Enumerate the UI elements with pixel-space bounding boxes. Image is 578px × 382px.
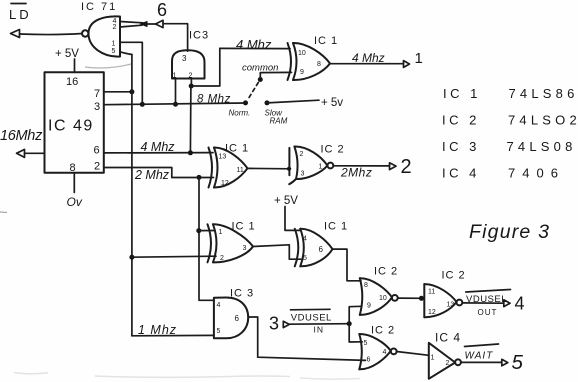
svg-text:5: 5 (512, 351, 524, 374)
svg-text:4 Mhz: 4 Mhz (236, 37, 272, 52)
wire IC2b output to IC2c (398, 297, 425, 299)
svg-text:VDUSEL: VDUSEL (291, 313, 332, 324)
connector arrow out 5 (502, 359, 508, 366)
net label VDUSEL OUT (overline) (466, 290, 511, 318)
wire +5V to pin16 (74, 59, 76, 72)
wire IC3a pin2 down (190, 79, 192, 87)
svg-text:IC 2: IC 2 (442, 113, 480, 128)
svg-text:8: 8 (364, 282, 368, 289)
wire IC2a output (333, 165, 389, 167)
xor-gate IC1d (295, 229, 333, 267)
svg-text:4: 4 (515, 294, 525, 314)
svg-text:1: 1 (112, 41, 116, 48)
svg-text:6: 6 (367, 357, 371, 364)
svg-text:IN: IN (314, 325, 325, 335)
junction (188, 150, 193, 155)
svg-text:IC 2: IC 2 (442, 270, 466, 282)
nor-gate IC2a (289, 146, 333, 184)
svg-text:LD: LD (9, 7, 32, 22)
connector arrow 16MHz (17, 149, 25, 157)
svg-text:74LS08: 74LS08 (507, 139, 577, 154)
svg-text:1: 1 (415, 50, 423, 67)
switch wiper (dashed) (248, 83, 259, 101)
wire (147, 23, 156, 25)
svg-text:4 Mhz: 4 Mhz (352, 51, 385, 65)
svg-text:WAIT: WAIT (465, 351, 494, 362)
svg-text:4: 4 (217, 302, 221, 309)
svg-text:1: 1 (431, 355, 435, 362)
junction (173, 102, 178, 107)
wire Slow contact to +5v (267, 100, 319, 103)
svg-text:3: 3 (243, 245, 247, 252)
svg-text:8 Mhz: 8 Mhz (197, 94, 231, 106)
svg-text:2Mhz: 2Mhz (340, 166, 372, 180)
svg-text:74LSO2: 74LSO2 (508, 113, 578, 128)
net label WAIT (overline) (465, 344, 499, 362)
and-gate IC3a (output up) (172, 50, 205, 78)
connector arrow LD (11, 30, 20, 38)
junction (287, 167, 291, 171)
wire IC1c output to IC1d pin5 (253, 245, 301, 259)
svg-text:OUT: OUT (478, 308, 498, 317)
wire IC2d output to IC4 (397, 352, 429, 356)
svg-text:4: 4 (303, 236, 307, 243)
svg-text:6: 6 (235, 314, 240, 323)
wire VDUSEL IN down to IC2d pin5 (349, 324, 362, 342)
nor-gate IC2c (424, 284, 462, 317)
svg-text:2: 2 (300, 151, 304, 158)
wire 16MHz (25, 152, 45, 154)
svg-text:Norm.: Norm. (229, 109, 251, 118)
svg-text:5: 5 (217, 328, 221, 335)
wire LD output (20, 33, 83, 36)
svg-text:IC 3: IC 3 (442, 139, 480, 154)
junction (347, 321, 352, 326)
inverter IC4 (429, 343, 461, 379)
wire pin8 to 0v (73, 173, 75, 193)
junction (129, 255, 134, 260)
svg-text:9: 9 (367, 303, 371, 310)
net label VDUSEL IN (overline) (291, 309, 332, 334)
nand-gate IC71 (82, 16, 120, 56)
wire IC4 output (461, 361, 502, 363)
svg-text:12: 12 (221, 180, 229, 187)
wire pin2 2MHz (104, 168, 214, 178)
wire into IC1c pin1 (199, 230, 215, 232)
svg-text:5: 5 (303, 255, 307, 262)
svg-text:16: 16 (66, 76, 78, 88)
svg-text:2: 2 (220, 255, 224, 262)
connector arrow out 1 (404, 61, 410, 68)
svg-text:+ 5V: + 5V (55, 48, 79, 60)
svg-text:10: 10 (379, 295, 387, 302)
svg-text:IC 2: IC 2 (371, 325, 395, 337)
svg-text:VDUSEL: VDUSEL (466, 294, 507, 305)
junction (197, 175, 202, 180)
and-gate IC3b (214, 298, 248, 339)
svg-text:3: 3 (269, 314, 279, 334)
svg-text:1 Mhz: 1 Mhz (138, 323, 177, 337)
svg-text:+ 5V: + 5V (274, 195, 298, 207)
svg-text:IC 1: IC 1 (443, 86, 481, 101)
svg-text:IC 1: IC 1 (314, 35, 338, 47)
wire pin3 8MHz to Norm contact (104, 103, 246, 105)
svg-text:4 Mhz: 4 Mhz (141, 140, 176, 154)
wire pin7 (1MHz net) (104, 91, 132, 93)
svg-text:2: 2 (113, 24, 117, 31)
svg-text:8: 8 (317, 61, 321, 68)
svg-text:2: 2 (401, 156, 412, 178)
stray mark left edge (0, 211, 7, 214)
wire NAND input pair to node 6 (120, 22, 143, 28)
svg-text:74LS86: 74LS86 (509, 86, 578, 101)
connector arrow in 3 (283, 321, 289, 327)
wire 1MHz vertical (131, 55, 133, 336)
svg-text:12: 12 (428, 309, 436, 316)
junction (189, 84, 194, 89)
svg-text:IC 71: IC 71 (81, 1, 117, 13)
wire IC1a output (330, 63, 404, 65)
svg-text:IC 1: IC 1 (324, 221, 348, 233)
svg-text:IC 1: IC 1 (232, 221, 256, 233)
svg-text:IC 1: IC 1 (225, 143, 249, 155)
svg-text:6: 6 (94, 145, 100, 157)
xor-gate IC1c (208, 224, 254, 262)
svg-text:16Mhz: 16Mhz (0, 128, 43, 144)
stray smudge bottom (14, 373, 290, 378)
svg-text:IC3: IC3 (189, 30, 209, 42)
svg-text:Ov: Ov (67, 195, 83, 209)
svg-text:IC 2: IC 2 (321, 144, 345, 156)
xor-gate IC1b (209, 147, 248, 187)
svg-text:7: 7 (94, 88, 100, 100)
svg-text:1: 1 (319, 164, 323, 171)
svg-text:1: 1 (219, 229, 223, 236)
wire IC1b output to IC2a (248, 167, 291, 169)
wire NAND pin1 lead (120, 42, 143, 104)
svg-text:13: 13 (447, 302, 455, 309)
wire VDUSEL IN (289, 323, 349, 326)
svg-text:6: 6 (319, 245, 324, 254)
wire 2MHz branch down to XOR3 and IC3b (199, 177, 214, 300)
wire NAND pin5 lead (120, 52, 132, 55)
wire node 6 to IC3a output (163, 24, 188, 52)
wire pin2 node to 4MHz wire (191, 48, 220, 86)
svg-text:4: 4 (383, 349, 387, 356)
wire IC1d output to IC2b pin8 (333, 249, 362, 281)
wire 4MHz to XOR IC1a (220, 47, 290, 49)
svg-text:IC 49: IC 49 (48, 118, 94, 135)
wire 4MHz riser from pin6 net (189, 86, 192, 153)
svg-text:3: 3 (301, 171, 305, 178)
arrowhead solid on node 6 wire (140, 21, 148, 27)
svg-text:Figure 3: Figure 3 (469, 221, 550, 243)
junction (419, 296, 424, 301)
svg-text:IC 3: IC 3 (230, 288, 254, 300)
svg-text:+ 5v: + 5v (321, 97, 343, 109)
switch contact Norm (243, 100, 248, 105)
svg-text:2: 2 (94, 161, 100, 173)
stray pencil arc (85, 64, 131, 68)
wire pin6 4MHz (104, 152, 213, 154)
ic IC49 box (45, 72, 104, 173)
svg-text:3: 3 (94, 101, 100, 113)
wire common to IC1a pin9 (260, 72, 291, 79)
svg-text:11: 11 (237, 167, 244, 174)
svg-text:5: 5 (112, 48, 116, 55)
svg-text:6: 6 (157, 0, 167, 20)
net label LD (with overline) (9, 4, 32, 23)
wire IC3a pin1 to 8MHz net (175, 79, 177, 105)
wire VDUSEL IN up to IC2b pin9 (349, 306, 361, 323)
svg-text:11: 11 (428, 289, 435, 296)
connector arrow out 4 (504, 300, 510, 307)
nor-gate IC2b (360, 278, 398, 315)
svg-text:9: 9 (300, 69, 304, 76)
junction (129, 89, 134, 94)
svg-text:IC 4: IC 4 (442, 166, 480, 181)
wire 1MHz bottom to IC3b pin5 (132, 334, 214, 336)
svg-text:RAM: RAM (270, 117, 288, 126)
svg-text:IC 4: IC 4 (435, 331, 461, 345)
wire IC2c output (462, 302, 504, 304)
junction NAND pin1 on 8MHz (140, 102, 145, 107)
connector arrow node 6 (156, 20, 164, 27)
nor-gate IC2d (359, 334, 396, 369)
svg-text:5: 5 (364, 340, 368, 347)
svg-text:7406: 7406 (508, 166, 565, 181)
wire +5V to IC1d pin4 (285, 207, 301, 231)
svg-text:3: 3 (182, 54, 187, 63)
switch contact Slow (265, 100, 270, 105)
svg-text:2: 2 (446, 360, 450, 367)
wire IC3b output to IC2d pin6 (248, 317, 365, 360)
junction (196, 228, 201, 233)
svg-text:10: 10 (298, 50, 306, 57)
svg-text:2 Mhz: 2 Mhz (134, 168, 170, 182)
junction common (258, 77, 263, 82)
xor-gate IC1a (288, 43, 331, 80)
wire into IC1c pin2 (132, 256, 216, 257)
svg-text:IC 2: IC 2 (374, 266, 398, 278)
svg-text:13: 13 (219, 154, 227, 161)
connector arrow out 2 (390, 163, 397, 170)
